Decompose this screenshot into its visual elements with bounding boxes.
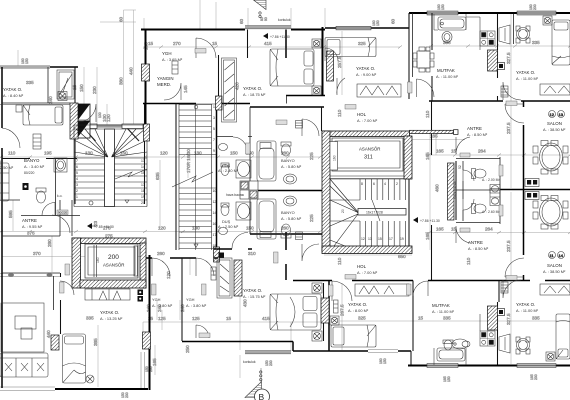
washer lower-center b bbox=[330, 316, 339, 325]
svg-text:650: 650 bbox=[398, 254, 406, 259]
top extension lines bbox=[144, 0, 325, 29]
svg-text:200: 200 bbox=[533, 4, 537, 10]
dus-upper shower bbox=[236, 160, 251, 178]
svg-text:YATAK O.: YATAK O. bbox=[516, 70, 535, 75]
svg-text:16: 16 bbox=[213, 222, 217, 226]
svg-text:430: 430 bbox=[243, 299, 248, 307]
banyo-c-upper wc bbox=[281, 142, 291, 156]
svg-text:415: 415 bbox=[262, 316, 270, 321]
wall salon divider second bbox=[53, 276, 55, 310]
duct shaft left stair (black triangles) bbox=[78, 104, 90, 138]
svg-text:170R 16/30: 170R 16/30 bbox=[186, 149, 191, 173]
dim numbers top chain bbox=[148, 40, 540, 46]
svg-text:460: 460 bbox=[435, 184, 440, 192]
dim vertical left inner bbox=[84, 67, 107, 126]
left U-stair landing door arc bbox=[78, 104, 96, 122]
svg-text:150: 150 bbox=[79, 84, 84, 92]
svg-text:7: 7 bbox=[76, 159, 78, 163]
wall left edge lower bbox=[1, 273, 3, 388]
left U-stair break line bbox=[115, 169, 147, 179]
fire stair treads lower bbox=[179, 188, 216, 249]
svg-text:5: 5 bbox=[76, 171, 78, 175]
door label boxes bbox=[57, 49, 517, 338]
svg-text:2: 2 bbox=[76, 189, 78, 193]
hatched column bed wall bbox=[327, 51, 334, 81]
left U-stair winder fan right bbox=[112, 129, 148, 157]
wall lower apt left bbox=[328, 281, 330, 352]
svg-text:260: 260 bbox=[157, 251, 165, 256]
svg-text:1: 1 bbox=[76, 195, 78, 199]
door banyo-left bbox=[2, 128, 20, 148]
elevator E2 counterweight bbox=[134, 246, 138, 276]
landing slab right bbox=[122, 124, 143, 129]
svg-text:375: 375 bbox=[27, 231, 35, 236]
svg-text:150: 150 bbox=[383, 358, 387, 364]
svg-text:A. : 5.80 M²: A. : 5.80 M² bbox=[281, 216, 302, 221]
elevator E1 car bbox=[332, 138, 403, 171]
elevator E2 door bbox=[94, 245, 97, 277]
bathtub kitchen-top bathroom bbox=[438, 17, 466, 30]
svg-text:A. : 9.00 M²: A. : 9.00 M² bbox=[356, 72, 377, 77]
wall bottom-left block bbox=[55, 388, 148, 390]
window top-left bbox=[0, 66, 50, 69]
banyo-c-lower tub bbox=[257, 199, 276, 239]
wall wc inner left bbox=[462, 161, 464, 221]
svg-text:335: 335 bbox=[532, 316, 540, 321]
wall ygh lower divider bbox=[181, 258, 183, 341]
svg-text:3: 3 bbox=[76, 183, 78, 187]
svg-text:13: 13 bbox=[368, 237, 372, 241]
wall bottom right bbox=[408, 365, 570, 367]
svg-text:267.5: 267.5 bbox=[340, 304, 345, 316]
door ygh-lower-1 bbox=[152, 258, 170, 276]
nightstand yatak1575 b bbox=[312, 331, 322, 341]
window bottom-left bbox=[0, 387, 55, 391]
hatched column salon-left bbox=[51, 335, 59, 350]
center stair break bbox=[372, 200, 380, 221]
stove kitchen top bbox=[480, 31, 495, 46]
round table lower bbox=[516, 337, 530, 354]
wall lower center bottom bbox=[182, 342, 293, 352]
svg-text:A. : 3.40 M²: A. : 3.40 M² bbox=[24, 164, 45, 169]
wall top-left/banyo divider bbox=[2, 67, 70, 103]
svg-text:60: 60 bbox=[239, 18, 244, 24]
door mutfak-lower bbox=[413, 281, 428, 296]
black box kitchen lower bbox=[498, 309, 505, 316]
center stair top edge bbox=[330, 179, 409, 221]
svg-text:MUTFAK: MUTFAK bbox=[432, 303, 450, 308]
svg-text:415: 415 bbox=[264, 41, 272, 46]
svg-text:YATAK O.: YATAK O. bbox=[348, 302, 367, 307]
wall center column spine bbox=[216, 104, 218, 259]
svg-text:20: 20 bbox=[141, 201, 145, 205]
bed top-center double bbox=[270, 49, 314, 86]
wall left block salon divider bbox=[60, 273, 62, 334]
dim chain top center bbox=[143, 46, 400, 48]
nightstand b bbox=[312, 86, 321, 95]
fire stair start circle bbox=[194, 105, 198, 109]
svg-text:225: 225 bbox=[309, 214, 314, 222]
dim vertical center low bbox=[157, 258, 240, 350]
svg-text:14: 14 bbox=[213, 211, 217, 215]
svg-text:60: 60 bbox=[391, 18, 396, 24]
svg-text:150: 150 bbox=[441, 4, 445, 10]
svg-text:237.5: 237.5 bbox=[506, 122, 511, 134]
wall salon party bbox=[500, 189, 570, 191]
wall dus upper top bbox=[217, 136, 253, 138]
door bedroom-right-top bbox=[503, 82, 521, 100]
svg-text:2.50 M²: 2.50 M² bbox=[0, 165, 14, 170]
door salon-lower bbox=[505, 258, 524, 277]
stairs layer bbox=[72, 104, 458, 302]
door bedroom2-top bbox=[337, 78, 345, 95]
svg-text:125: 125 bbox=[192, 316, 200, 321]
wall center top bbox=[141, 29, 325, 31]
svg-text:SALON: SALON bbox=[547, 263, 562, 268]
dim vertical lower-left edge bbox=[155, 310, 162, 375]
wardrobe top-left bbox=[57, 70, 74, 99]
elevation flag top bbox=[263, 33, 290, 39]
svg-text:YATAK O.: YATAK O. bbox=[243, 288, 262, 293]
bed lower-center horizontal bbox=[331, 325, 376, 347]
wc kitchen lower bbox=[443, 340, 453, 350]
svg-text:YANGIN: YANGIN bbox=[157, 76, 174, 81]
dim chain horizontal mid-upper bbox=[0, 156, 320, 158]
svg-text:A. : 8.40 M²: A. : 8.40 M² bbox=[3, 93, 24, 98]
closet bedroom1875 bbox=[222, 58, 237, 122]
svg-text:A. : 11.00 M²: A. : 11.00 M² bbox=[436, 74, 459, 79]
bed bottom-left bbox=[63, 334, 86, 383]
balcony rail top-center bbox=[245, 26, 291, 29]
svg-text:ANTRE: ANTRE bbox=[468, 240, 483, 245]
wall bathrooms mid bbox=[250, 190, 322, 192]
svg-text:6: 6 bbox=[76, 165, 78, 169]
dus-lower shower bbox=[236, 202, 251, 220]
wall banyo bottom-left bbox=[2, 158, 77, 160]
svg-text:+7.85 +11.30: +7.85 +11.30 bbox=[94, 225, 114, 229]
wall lower kitchen-bedroom bbox=[498, 281, 500, 366]
misc small dims bbox=[33, 234, 406, 260]
wall yatak1575 right / lower bbox=[285, 232, 287, 280]
wall antre-left bottom bbox=[2, 200, 60, 236]
dim vertical right of center bbox=[430, 132, 436, 250]
bed top-center-right bbox=[325, 38, 376, 57]
left U-stair treads left flight bbox=[74, 158, 105, 200]
fireplace salon upper bbox=[525, 179, 539, 187]
svg-text:A. : 15.75 M²: A. : 15.75 M² bbox=[243, 294, 266, 299]
svg-text:440: 440 bbox=[129, 67, 134, 75]
svg-text:A. : 2.50 M²: A. : 2.50 M² bbox=[218, 224, 239, 229]
svg-text:17: 17 bbox=[141, 183, 145, 187]
svg-text:310: 310 bbox=[248, 251, 256, 256]
svg-text:12: 12 bbox=[361, 237, 365, 241]
closet yatak1575 bbox=[217, 258, 232, 298]
dus-lower basin bbox=[219, 228, 228, 235]
wardrobe right-top bbox=[540, 84, 570, 95]
dining table salon lower bbox=[533, 196, 568, 230]
svg-text:16x17.5/28: 16x17.5/28 bbox=[366, 211, 383, 215]
wc-lower toilet bbox=[472, 204, 487, 214]
svg-text:327.5: 327.5 bbox=[506, 52, 511, 64]
section mark top bbox=[254, 0, 267, 18]
svg-text:13: 13 bbox=[141, 159, 145, 163]
svg-text:A. : 11.00 M²: A. : 11.00 M² bbox=[432, 309, 455, 314]
svg-text:165: 165 bbox=[425, 232, 430, 240]
svg-text:230: 230 bbox=[269, 360, 273, 366]
svg-text:15: 15 bbox=[212, 41, 218, 46]
svg-text:165: 165 bbox=[152, 358, 157, 366]
svg-text:110: 110 bbox=[8, 151, 16, 156]
wall top-right bbox=[409, 12, 570, 14]
bed right-bottom bbox=[556, 314, 570, 359]
svg-text:110: 110 bbox=[425, 110, 430, 118]
door hol-lower to banyo bbox=[302, 244, 319, 261]
svg-text:BANYO: BANYO bbox=[281, 210, 295, 215]
wall top bedroom1 left/top vertical bbox=[322, 27, 324, 96]
svg-text:15: 15 bbox=[418, 316, 424, 321]
wall left spine upper bbox=[145, 30, 147, 127]
svg-text:A. : 18.75 M²: A. : 18.75 M² bbox=[243, 92, 266, 97]
svg-text:15: 15 bbox=[378, 237, 382, 241]
elevator E1 door bbox=[330, 176, 404, 179]
landing slab left bbox=[77, 124, 97, 129]
svg-text:80/220: 80/220 bbox=[24, 171, 34, 175]
left U-stair outline bbox=[74, 125, 147, 207]
wall top-left room right (wardrobe wall) bbox=[74, 67, 76, 103]
svg-text:100: 100 bbox=[98, 112, 102, 118]
svg-text:15: 15 bbox=[226, 316, 232, 321]
svg-text:korkuluk: korkuluk bbox=[243, 360, 256, 364]
svg-text:A. : 3.80 M²: A. : 3.80 M² bbox=[186, 303, 207, 308]
svg-text:264: 264 bbox=[478, 149, 486, 154]
nightstand top-left bbox=[16, 105, 22, 112]
wall kitchen-bedroom top bbox=[497, 14, 499, 101]
svg-text:MUTFAK: MUTFAK bbox=[437, 68, 455, 73]
svg-text:230: 230 bbox=[92, 86, 97, 94]
svg-text:SALON: SALON bbox=[547, 121, 562, 126]
lamp right-top bbox=[543, 16, 552, 25]
wall dining nook top bbox=[513, 14, 515, 44]
svg-text:A. : 8.00 M²: A. : 8.00 M² bbox=[348, 308, 369, 313]
svg-text:325: 325 bbox=[358, 316, 366, 321]
svg-text:15: 15 bbox=[451, 227, 457, 232]
wall wc left col bbox=[455, 161, 457, 220]
wall bathrooms bottom bbox=[250, 233, 330, 235]
door wc-top bbox=[325, 48, 338, 61]
svg-text:6: 6 bbox=[373, 182, 375, 186]
svg-text:A. : 7.00 M²: A. : 7.00 M² bbox=[357, 270, 378, 275]
wall yatak1575 top bbox=[214, 248, 252, 250]
elevator E2 hatched frame bbox=[72, 238, 146, 288]
svg-text:125: 125 bbox=[158, 316, 166, 321]
wall stairwell left lower bbox=[74, 139, 76, 204]
svg-text:A. : 3.80 M²: A. : 3.80 M² bbox=[152, 303, 173, 308]
center stair treads lower flight bbox=[360, 221, 406, 246]
svg-text:10: 10 bbox=[213, 189, 217, 193]
left U-stair end mark bbox=[125, 200, 129, 203]
svg-text:120: 120 bbox=[166, 271, 171, 279]
wall fire stair left bbox=[175, 104, 177, 251]
fire stair break bbox=[172, 172, 213, 187]
svg-text:3: 3 bbox=[213, 116, 215, 120]
bed top-left bbox=[23, 105, 63, 125]
wardrobe right-bottom bbox=[540, 284, 570, 295]
wall mutfak left bbox=[431, 13, 433, 101]
dim chain top right bbox=[429, 45, 570, 47]
wall lower mutfak divider bbox=[412, 281, 414, 331]
svg-text:17: 17 bbox=[213, 233, 217, 237]
svg-text:19: 19 bbox=[400, 237, 404, 241]
svg-text:165: 165 bbox=[436, 149, 444, 154]
fire stair down arrow bbox=[194, 244, 198, 248]
bottom extension lines bbox=[143, 322, 291, 378]
dim vertical left block bbox=[13, 50, 98, 387]
svg-text:14: 14 bbox=[559, 253, 564, 258]
duct cells between bathrooms bbox=[240, 181, 258, 199]
center stair lower numbers bbox=[361, 237, 404, 241]
svg-text:hava bacası: hava bacası bbox=[454, 181, 458, 199]
sink kitchen lower bbox=[452, 339, 470, 349]
svg-text:19: 19 bbox=[141, 195, 145, 199]
wall lower bedroom bottom bbox=[293, 350, 411, 352]
svg-text:200: 200 bbox=[108, 254, 119, 261]
dim chain bottom right bbox=[340, 320, 570, 322]
nightstand a bbox=[312, 39, 321, 48]
svg-text:+7.86 +11.30: +7.86 +11.30 bbox=[420, 219, 440, 223]
elevator E2 car bbox=[85, 244, 138, 278]
wardrobe yatak9 bbox=[357, 84, 401, 97]
svg-text:ANTRE: ANTRE bbox=[467, 126, 482, 131]
wall banyo upper right bbox=[321, 107, 323, 131]
svg-text:A. : 13.25 M²: A. : 13.25 M² bbox=[100, 316, 123, 321]
svg-text:20: 20 bbox=[341, 209, 345, 213]
svg-text:YATAK O.: YATAK O. bbox=[356, 66, 375, 71]
svg-text:440: 440 bbox=[46, 330, 51, 338]
elevator E1 inner left detail bbox=[330, 142, 338, 171]
lamp symbol top-left bbox=[58, 92, 67, 101]
wall wc mid bbox=[456, 189, 500, 191]
svg-text:A. : 2.60 M²: A. : 2.60 M² bbox=[482, 210, 500, 214]
dim numbers chain mid-upper bbox=[8, 134, 486, 156]
dim vertical fire stair bbox=[160, 155, 188, 228]
svg-text:230: 230 bbox=[125, 392, 129, 398]
window lower bedroom bbox=[368, 350, 398, 353]
center stair upper numbers bbox=[361, 182, 398, 186]
svg-text:327.5: 327.5 bbox=[506, 313, 511, 325]
svg-text:15: 15 bbox=[141, 171, 145, 175]
svg-text:MERD.: MERD. bbox=[157, 82, 171, 87]
fire stair numbers bbox=[213, 105, 217, 248]
wall yangin right / yatak left bbox=[218, 55, 220, 103]
hood kitchen lower bbox=[499, 334, 510, 353]
svg-text:2: 2 bbox=[396, 182, 398, 186]
svg-text:110: 110 bbox=[337, 257, 342, 265]
wall antre left bbox=[431, 101, 433, 280]
wall stair right upper bbox=[144, 104, 146, 204]
svg-text:13: 13 bbox=[559, 112, 564, 117]
radiator right-top bbox=[501, 86, 508, 97]
banyo-left wc bbox=[36, 188, 46, 203]
svg-text:A. : 7.00 M²: A. : 7.00 M² bbox=[357, 118, 378, 123]
door yatak1575 bbox=[196, 325, 209, 338]
svg-text:120: 120 bbox=[158, 226, 166, 231]
center stair right edge bbox=[408, 179, 410, 246]
wall ygh-yatak bottom wall segment bbox=[285, 30, 287, 59]
wall top-left room top bbox=[50, 66, 78, 68]
svg-text:150: 150 bbox=[25, 58, 29, 64]
wall right apartments upper bottom bbox=[429, 100, 570, 102]
svg-text:BANYO: BANYO bbox=[24, 158, 40, 163]
svg-text:120: 120 bbox=[106, 114, 111, 122]
svg-text:335: 335 bbox=[86, 316, 94, 321]
svg-text:ASANSÖR: ASANSÖR bbox=[359, 147, 380, 152]
dus-upper wc bbox=[221, 163, 229, 176]
dim vertical x342 lower bbox=[341, 283, 343, 350]
door dus upper bbox=[233, 137, 247, 151]
balcony rail lower center bbox=[245, 351, 291, 354]
elevator E1 hatched frame bbox=[322, 130, 458, 251]
svg-text:A. : 8.50 M²: A. : 8.50 M² bbox=[468, 246, 489, 251]
svg-text:150: 150 bbox=[376, 20, 380, 26]
window bottom-right 1 bbox=[427, 364, 458, 368]
window yatak9 top bbox=[336, 26, 371, 30]
svg-text:150: 150 bbox=[230, 151, 238, 156]
svg-text:A. : 9.55 M²: A. : 9.55 M² bbox=[22, 224, 43, 229]
black box kitchen top bbox=[498, 63, 505, 70]
svg-text:+7.86 +11.30: +7.86 +11.30 bbox=[270, 35, 290, 39]
hatched shaft wc bbox=[448, 163, 455, 220]
elevation flag center bbox=[413, 217, 440, 223]
svg-text:YATAK O.: YATAK O. bbox=[243, 86, 262, 91]
banyo door arc bbox=[42, 203, 55, 216]
svg-text:7: 7 bbox=[213, 138, 215, 142]
wall hol lower bottom bbox=[293, 280, 570, 282]
wall bedroom2 bottom bbox=[286, 95, 325, 97]
wall wc right bbox=[456, 157, 500, 224]
svg-text:225: 225 bbox=[309, 152, 314, 160]
wall salon left bbox=[523, 101, 525, 281]
svg-text:17: 17 bbox=[389, 237, 393, 241]
hatch shaft ygh2 bbox=[234, 260, 242, 296]
svg-text:325: 325 bbox=[358, 41, 366, 46]
dim vertical left outer a bbox=[100, 10, 136, 126]
svg-text:160: 160 bbox=[96, 257, 100, 263]
salon circles lower bbox=[549, 252, 565, 259]
svg-text:150: 150 bbox=[447, 376, 451, 382]
wall mutfak lower left step bbox=[411, 330, 413, 366]
svg-text:ASANSÖR: ASANSÖR bbox=[103, 263, 124, 268]
svg-text:110: 110 bbox=[466, 257, 471, 265]
window top-right 2 bbox=[517, 11, 556, 15]
hatched shaft kitchen lower bbox=[488, 306, 498, 330]
door hol-upper to banyo bbox=[302, 119, 319, 136]
door bedroom-left-lower bbox=[60, 281, 74, 295]
plant bottom-left bbox=[86, 375, 94, 383]
svg-text:12: 12 bbox=[550, 112, 555, 117]
svg-text:311: 311 bbox=[364, 155, 373, 161]
banyo-left radiator bbox=[33, 134, 41, 149]
wc-lower basin bbox=[490, 189, 500, 206]
door antre-top-right bbox=[505, 104, 524, 123]
svg-text:230: 230 bbox=[534, 374, 538, 380]
ko room wall bbox=[21, 158, 80, 216]
table-chairs mutfak top bbox=[413, 47, 434, 72]
hatched column center spine a bbox=[216, 96, 223, 110]
center stair winder fan bbox=[330, 179, 358, 246]
black column dus bbox=[219, 253, 225, 259]
tub kitchen lower bbox=[437, 348, 465, 361]
rotated dim texts bbox=[8, 16, 511, 366]
